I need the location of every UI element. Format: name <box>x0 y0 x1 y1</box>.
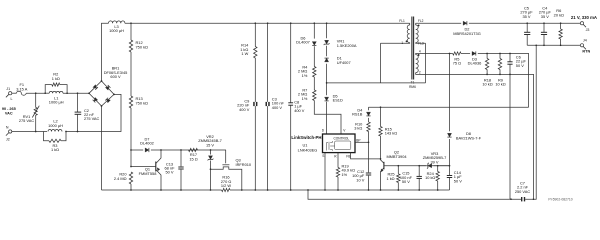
junction Q1 emitter ground <box>160 189 162 191</box>
junction R20 ground <box>130 189 132 191</box>
bridge diode top-right <box>105 85 110 90</box>
U1 inner control block <box>335 141 351 150</box>
wire C2 upper <box>77 93 79 112</box>
wire L1 to bridge <box>63 92 89 94</box>
capacitor C15 <box>417 176 422 178</box>
wire C8 lower <box>290 105 292 190</box>
resistor R25 <box>397 174 400 183</box>
wire L1 lead left <box>45 92 49 94</box>
junction C15 ground <box>418 189 420 191</box>
wire R9 upper <box>499 54 501 59</box>
wire L2 to bridge N path <box>66 94 121 131</box>
wire gate drop to Q3 <box>225 150 227 163</box>
bridge rectifier BR1 diamond <box>89 81 114 106</box>
svg-text:J1: J1 <box>6 87 10 91</box>
zener VR3 <box>427 163 432 169</box>
wire D8 lower <box>449 139 451 166</box>
wire VR1 chain upper <box>326 23 328 38</box>
junction R2/L1 left <box>44 92 46 94</box>
wire R18 lower <box>486 70 488 75</box>
svg-text:U1: U1 <box>303 142 308 147</box>
wire C9 lower <box>254 106 256 190</box>
diode D5 <box>325 97 329 101</box>
wire FL2 lead <box>415 23 417 25</box>
wire C13 lower <box>180 170 182 190</box>
junction R2/L1 right <box>66 92 68 94</box>
transformer T1 bias winding <box>416 25 419 43</box>
junction C2 bottom <box>77 131 79 133</box>
wire C3 upper <box>267 23 269 102</box>
svg-text:BP: BP <box>356 138 360 142</box>
wire D4 to R10 <box>368 118 370 122</box>
junction RV1 N line <box>35 131 37 133</box>
wire FB pin line <box>351 153 380 159</box>
junction R25 ground <box>397 189 399 191</box>
bridge diode bottom-left <box>93 97 98 102</box>
diode D7 <box>145 148 149 152</box>
resistor R6 <box>559 29 562 39</box>
wire R3 branch right <box>61 132 66 141</box>
junction C14 top <box>449 165 451 167</box>
wire RV1 lower <box>35 117 37 132</box>
junction Q2 emitter ground <box>380 189 382 191</box>
junction Q3 ground <box>241 189 243 191</box>
wire D6 chain upper <box>313 23 315 38</box>
wire R24 upper <box>437 166 439 172</box>
transformer T1 primary winding <box>407 25 410 43</box>
svg-text:N: N <box>6 126 9 130</box>
transformer T1 secondary winding <box>416 55 419 73</box>
wire C5 lower <box>526 35 528 46</box>
resistor R16 <box>222 188 230 191</box>
wire VR3 to R24 node <box>434 165 450 167</box>
junction secondary return branch <box>307 189 309 191</box>
wire F1 to R2/L1 block <box>26 92 45 94</box>
wire VR2 upper <box>210 150 212 155</box>
wire R18 upper <box>486 54 488 59</box>
resistor R18 <box>485 59 488 70</box>
wire D2 to J3 <box>469 22 580 24</box>
junction drain clamp node <box>326 82 328 84</box>
wire D8 branch from pin4 <box>449 54 451 108</box>
wire pin4 lead <box>416 54 453 55</box>
wire D3 to divider <box>478 54 529 108</box>
zener VR1 <box>324 40 330 45</box>
resistor R2 <box>52 83 60 86</box>
wire D8 upper <box>449 107 451 131</box>
capacitor C3 <box>266 102 270 106</box>
junction C3 ground <box>267 189 269 191</box>
junction C6 top <box>509 53 511 55</box>
junction R18 top <box>486 53 488 55</box>
wire S pin to ground <box>324 153 326 190</box>
polarity dot primary <box>406 40 408 42</box>
svg-text:CONTROL: CONTROL <box>334 136 350 140</box>
capacitor C12 <box>366 173 371 175</box>
diode D2 <box>463 21 467 25</box>
wire C15 to ground <box>418 179 420 191</box>
svg-text:90 - 265: 90 - 265 <box>2 107 16 111</box>
junction C12 ground <box>368 189 370 191</box>
junction C2 top <box>77 92 79 94</box>
junction C6 pin2 rail <box>509 74 511 76</box>
junction top rail C9 <box>254 22 256 24</box>
junction bridge plus <box>101 80 103 82</box>
junction bridge minus <box>101 105 103 107</box>
wire R25 upper <box>397 166 399 174</box>
capacitor C9 <box>253 102 257 106</box>
resistor R15 <box>379 127 382 137</box>
wire R2 branch right <box>60 85 67 94</box>
svg-text:FB: FB <box>346 155 350 159</box>
ground rail segment pre R16 <box>102 189 222 191</box>
wire VR2 lower <box>210 161 212 191</box>
ground rail segment post R16 <box>230 189 450 191</box>
wire R15 lower <box>380 136 382 159</box>
transistor Q2 MMBT3904 <box>381 159 450 190</box>
junction F1/RV1 node <box>35 92 37 94</box>
wire R20 to ground rail <box>130 184 132 190</box>
junction pin4 D8 branch <box>449 53 451 55</box>
diode D4 <box>366 112 370 116</box>
junction R24 ground <box>437 189 439 191</box>
capacitor C8 <box>288 103 293 105</box>
wire J1 to F1 <box>12 92 17 94</box>
wire primary return link <box>327 82 426 84</box>
wire FL2 to D2 <box>416 22 462 24</box>
svg-text:L: L <box>11 97 13 101</box>
junction C5 top <box>526 22 528 24</box>
junction R6 bottom <box>560 44 562 46</box>
resistor R3 <box>49 139 61 142</box>
svg-text:J3: J3 <box>586 28 590 32</box>
junction Q1 base node <box>130 166 132 168</box>
resistor R14 <box>254 47 257 59</box>
wire C8 upper <box>290 23 292 102</box>
resistor R9 <box>498 59 501 70</box>
svg-text:R103 kΩ: R103 kΩ <box>354 121 363 130</box>
wire D5 to D pin <box>326 102 328 134</box>
wire C6 lower to return <box>509 64 511 199</box>
connector J1 pin L <box>6 92 12 98</box>
bridge diode bottom-right <box>105 98 110 103</box>
wire FL1 lead <box>409 23 411 25</box>
wire bias line <box>369 106 529 108</box>
svg-text:FL3: FL3 <box>418 42 424 46</box>
wire R15 upper <box>380 107 382 126</box>
wire pin2 lead <box>416 73 534 200</box>
capacitor C4 <box>541 32 547 34</box>
wire C4 upper <box>543 23 545 32</box>
junction C8 ground <box>290 189 292 191</box>
resistor R4 <box>313 67 316 78</box>
diode D8 <box>447 133 451 137</box>
svg-text:LinkSwitch-PH: LinkSwitch-PH <box>291 135 321 140</box>
svg-text:J2: J2 <box>6 137 10 141</box>
svg-text:J4: J4 <box>583 38 587 42</box>
connector J4 pin <box>580 44 586 50</box>
wire D7 line <box>131 149 143 151</box>
connector J2 pin N <box>6 130 12 136</box>
wire C14 upper <box>449 166 451 176</box>
resistor R20 <box>129 172 132 184</box>
wire C14 lower to rail end <box>449 178 451 190</box>
wire D1 to drain node <box>326 64 328 95</box>
junction top rail C8 <box>290 22 292 24</box>
junction secondary rtn line <box>533 198 535 200</box>
wire C6 upper <box>509 54 511 62</box>
junction L2/R3 right <box>65 131 67 133</box>
wire R10 to BP node <box>368 132 370 173</box>
wire R12 to R13 <box>130 52 132 96</box>
wire R6 upper <box>560 23 562 29</box>
zener VR2 <box>208 156 214 161</box>
op-amp U1 LNK403EG box <box>323 134 356 153</box>
svg-text:4: 4 <box>419 49 421 53</box>
wire R6 lower <box>560 39 562 45</box>
svg-text:PI-5902-082710: PI-5902-082710 <box>548 198 572 202</box>
resistor R7 <box>313 90 316 101</box>
capacitor C5 <box>524 32 530 34</box>
resistor R10 <box>367 122 370 132</box>
junction R24 top <box>437 165 439 167</box>
wire R pin upper <box>337 153 339 168</box>
junction S ground <box>324 189 326 191</box>
junction C4 bottom <box>543 44 545 46</box>
transistor Q3 IRFR010 gate bar <box>222 164 229 166</box>
polarity dot bias <box>418 24 420 26</box>
capacitor C14 <box>447 176 452 178</box>
svg-text:R251 kΩ: R251 kΩ <box>386 171 394 180</box>
wire C9 branch upper <box>254 23 256 46</box>
junction base line C15 <box>418 165 420 167</box>
junction VR2 source node <box>210 168 212 170</box>
wire R19 to ground <box>337 177 339 190</box>
polarity dot secondary <box>418 54 420 56</box>
wire C5 upper <box>526 23 528 32</box>
capacitor C7 <box>521 197 525 201</box>
wire VR1 to D1 <box>326 46 328 56</box>
wire bridge minus down to ground rail <box>101 106 103 190</box>
junction C13 top <box>180 149 182 151</box>
resistor R5 <box>453 52 461 55</box>
junction C9 ground <box>254 189 256 191</box>
inductor L3 <box>109 21 125 23</box>
wire pin1 lead <box>381 42 410 45</box>
wire secondary return line <box>308 190 521 199</box>
transistor Q3 IRFR010 body <box>211 167 242 190</box>
wire C4 lower <box>543 35 545 46</box>
wire R24 to ground <box>437 181 439 190</box>
svg-text:2: 2 <box>419 70 421 74</box>
svg-text:S: S <box>322 154 324 158</box>
junction R6 top <box>560 22 562 24</box>
wire VR3 left lead <box>419 165 426 167</box>
wire C2 lower <box>77 114 79 131</box>
wire FL3 lead <box>416 42 426 45</box>
svg-text:R1715 Ω: R1715 Ω <box>189 152 197 161</box>
wire top rail <box>125 22 410 24</box>
transistor Q1 FMMT558 <box>131 150 161 190</box>
wire R3 parallel branch left <box>44 132 50 141</box>
wire C3 lower <box>267 106 269 190</box>
junction D7 line left <box>130 149 132 151</box>
junction Q2 collector node <box>380 158 382 160</box>
wire bridge plus up <box>102 23 109 81</box>
varistor RV1 <box>32 106 39 118</box>
inductor L2 <box>48 129 62 131</box>
resistor R24 <box>436 172 439 182</box>
junction bias R15 <box>380 106 382 108</box>
diode D6 <box>312 42 316 46</box>
junction VR2 ground <box>210 189 212 191</box>
wire C13 upper <box>180 150 182 166</box>
svg-text:FL2: FL2 <box>418 19 424 23</box>
capacitor C6 <box>507 62 512 64</box>
resistor R13 <box>129 96 132 108</box>
connector J3 pin <box>580 22 586 28</box>
junction top rail R12 <box>130 22 132 24</box>
U1 internal mosfet <box>327 141 335 151</box>
junction C4 top <box>543 22 545 24</box>
fuse F1 <box>17 91 27 95</box>
wire FL3 drop <box>425 43 427 83</box>
wire C12 to ground <box>368 176 370 190</box>
junction R9 top <box>499 53 501 55</box>
wire D7 to C13 R17 <box>151 149 226 151</box>
junction bridge right <box>113 94 115 96</box>
inductor L1 <box>49 91 63 93</box>
wire output return line <box>527 44 580 46</box>
wire R14 to C9 <box>254 58 256 102</box>
wire R2 parallel branch <box>45 85 52 94</box>
resistor R12 <box>129 40 132 52</box>
wire pin1 drop <box>380 43 382 83</box>
wire R9 lower <box>499 70 501 75</box>
transformer T1 core <box>412 17 414 80</box>
wire C15 upper <box>418 166 420 177</box>
junction BP tap <box>368 141 370 143</box>
wire C7 right to RTN <box>525 45 536 199</box>
wire BP stub <box>355 141 369 143</box>
junction top rail C3 <box>267 22 269 24</box>
svg-text:LNK403EG: LNK403EG <box>298 148 318 153</box>
svg-text:1: 1 <box>401 41 403 45</box>
wire R13 down to D7 node <box>130 108 132 167</box>
junction C6 return <box>510 198 512 200</box>
wire R4 to R7 <box>313 77 315 90</box>
junction R19 ground <box>337 189 339 191</box>
resistor R17 <box>189 148 198 151</box>
svg-text:FL1: FL1 <box>399 19 405 23</box>
junction VR2 top <box>210 149 212 151</box>
junction top rail VR1 <box>326 22 328 24</box>
wire J2 to L2 block <box>12 131 47 133</box>
wire RV1 branch upper <box>35 93 37 106</box>
svg-text:RTN: RTN <box>582 49 590 53</box>
svg-text:VAC: VAC <box>5 112 13 116</box>
wire bias to D4 <box>368 107 370 110</box>
wire rail to R12 <box>130 23 132 40</box>
diode D1 <box>325 58 329 62</box>
junction C13 ground <box>180 189 182 191</box>
junction Q1 collector node <box>160 149 162 151</box>
junction RTN drop <box>535 44 537 46</box>
junction base line R25 <box>397 165 399 167</box>
wire R25 to ground <box>397 183 399 191</box>
bridge diode top-left <box>93 85 98 90</box>
wire D6 to R4 <box>313 46 315 66</box>
wire R5 to D3 <box>461 53 470 55</box>
svg-text:R141 kΩ1 W: R141 kΩ1 W <box>240 42 249 56</box>
resistor R19 <box>336 168 339 178</box>
junction top rail D6 <box>313 22 315 24</box>
junction bridge left <box>88 92 90 94</box>
capacitor C2 <box>75 112 82 114</box>
diode D3 <box>472 51 476 55</box>
svg-text:21 V, 330 mA: 21 V, 330 mA <box>571 15 597 20</box>
junction R9 bottom <box>499 74 501 76</box>
junction R18 bottom <box>486 74 488 76</box>
wire R7 to V pin <box>314 101 341 135</box>
capacitor C13 <box>178 167 183 169</box>
